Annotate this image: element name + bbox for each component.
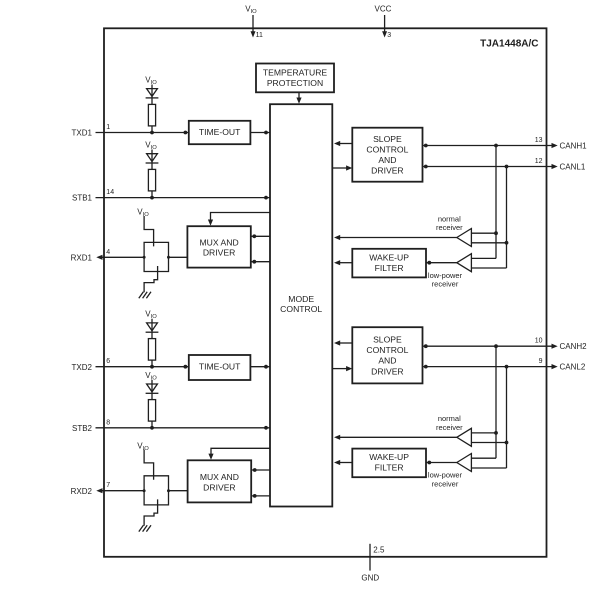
svg-text:CANH2: CANH2 [560,342,588,351]
svg-text:6: 6 [106,358,110,365]
svg-text:TIME-OUT: TIME-OUT [199,127,241,137]
svg-text:FILTER: FILTER [375,463,404,473]
svg-text:7: 7 [106,482,110,489]
svg-text:receiver: receiver [436,223,463,232]
svg-text:TIME-OUT: TIME-OUT [199,362,241,372]
svg-text:GND: GND [361,573,379,582]
svg-text:AND: AND [378,356,396,366]
svg-text:FILTER: FILTER [375,263,404,273]
svg-text:TXD1: TXD1 [72,129,93,138]
svg-text:STB2: STB2 [72,424,93,433]
svg-text:DRIVER: DRIVER [203,483,235,493]
svg-text:TJA1448A/C: TJA1448A/C [480,39,538,50]
svg-text:TXD2: TXD2 [72,363,93,372]
svg-text:AND: AND [378,155,396,165]
svg-text:receiver: receiver [432,280,459,289]
svg-text:11: 11 [256,32,263,39]
svg-text:CONTROL: CONTROL [366,345,408,355]
svg-text:CANL2: CANL2 [560,362,586,371]
svg-text:CANH1: CANH1 [560,141,588,150]
svg-text:receiver: receiver [432,480,459,489]
svg-text:WAKE-UP: WAKE-UP [369,452,409,462]
svg-text:SLOPE: SLOPE [373,134,402,144]
svg-text:1: 1 [106,124,110,131]
svg-text:8: 8 [106,419,110,426]
svg-text:normal: normal [438,214,461,223]
svg-text:10: 10 [535,338,543,345]
svg-text:12: 12 [535,158,543,165]
svg-text:low-power: low-power [428,271,463,280]
svg-text:RXD1: RXD1 [71,253,93,262]
svg-text:receiver: receiver [436,423,463,432]
svg-text:MUX AND: MUX AND [200,238,239,248]
svg-text:13: 13 [535,137,543,144]
svg-text:MODE: MODE [288,294,314,304]
svg-text:DRIVER: DRIVER [371,166,403,176]
svg-text:PROTECTION: PROTECTION [267,78,323,88]
svg-text:3: 3 [387,32,391,39]
svg-text:4: 4 [106,249,110,256]
svg-text:DRIVER: DRIVER [203,248,235,258]
svg-text:MUX AND: MUX AND [200,472,239,482]
svg-text:SLOPE: SLOPE [373,335,402,345]
svg-text:VCC: VCC [375,5,392,14]
svg-text:CONTROL: CONTROL [366,145,408,155]
svg-text:RXD2: RXD2 [71,487,93,496]
svg-text:DRIVER: DRIVER [371,366,403,376]
svg-text:low-power: low-power [428,471,463,480]
svg-text:CANL1: CANL1 [560,162,586,171]
svg-text:CONTROL: CONTROL [280,304,322,314]
svg-text:9: 9 [539,358,543,365]
svg-text:2.5: 2.5 [373,546,385,555]
svg-text:WAKE-UP: WAKE-UP [369,252,409,262]
svg-text:normal: normal [438,414,461,423]
svg-text:TEMPERATURE: TEMPERATURE [263,68,328,78]
svg-text:14: 14 [106,189,114,196]
svg-text:STB1: STB1 [72,194,93,203]
